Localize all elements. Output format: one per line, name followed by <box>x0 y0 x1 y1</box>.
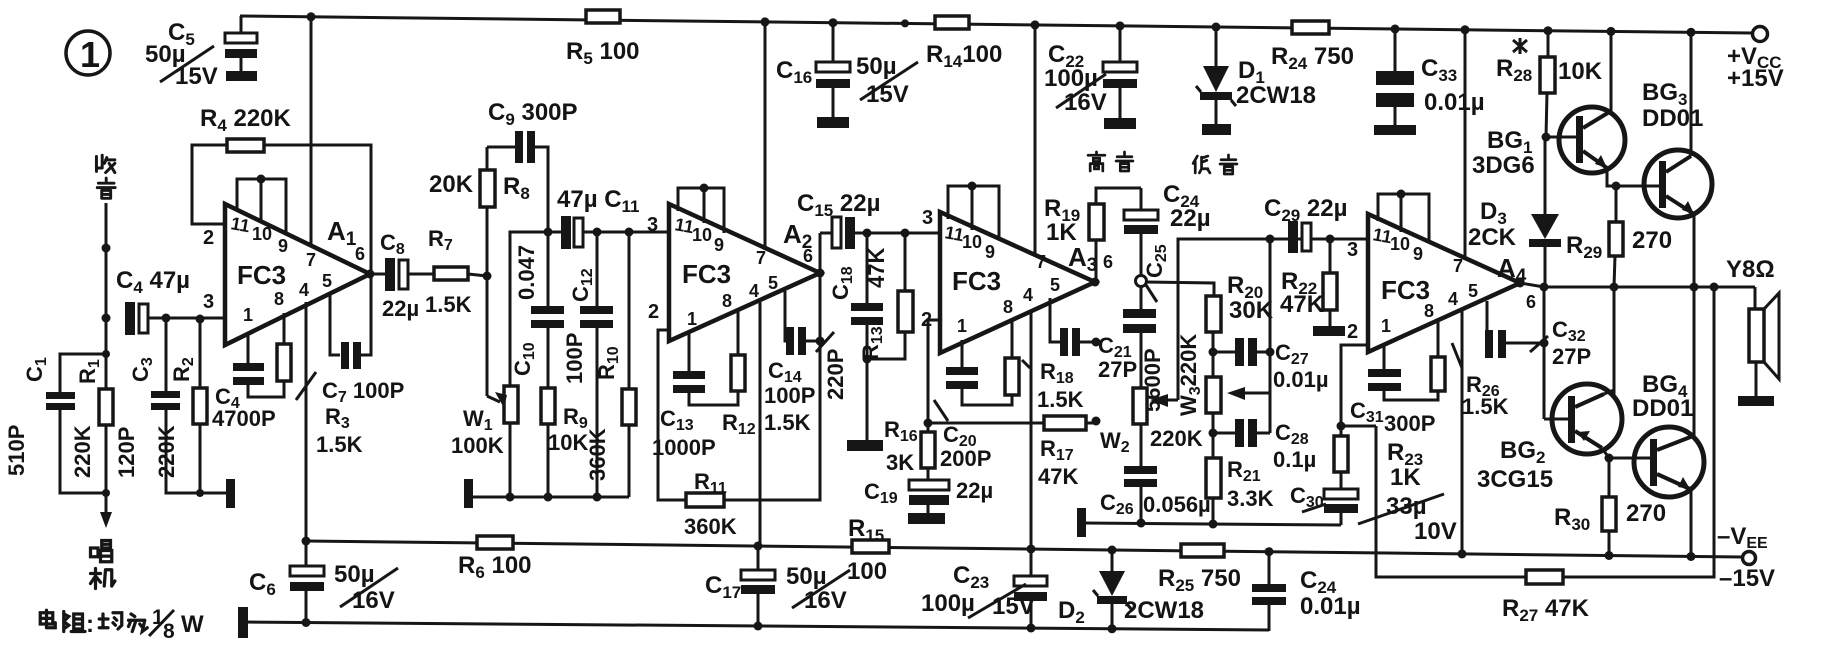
+Vcc terminal <box>1727 27 1784 93</box>
wire pin7 of A3 from +Vcc rail <box>1031 20 1040 256</box>
svg-text:270: 270 <box>1626 500 1666 527</box>
node output junction dots <box>1610 283 1719 292</box>
svg-text:220K: 220K <box>1150 426 1203 451</box>
ground bus of stage 2 <box>464 479 629 508</box>
svg-text:220K: 220K <box>70 425 95 478</box>
label: "phonograph" (CJK chang-ji) <box>91 541 115 589</box>
capacitor C29 22u coupling to A4 <box>1264 195 1347 253</box>
svg-text:7: 7 <box>306 250 316 270</box>
svg-text:50µ: 50µ <box>786 563 827 590</box>
resistor R20 30K bass <box>1206 272 1274 377</box>
svg-text:C4 47µ: C4 47µ <box>116 267 190 297</box>
svg-text:47K: 47K <box>1038 464 1078 489</box>
svg-text:360K: 360K <box>684 514 737 539</box>
svg-text:3DG6: 3DG6 <box>1472 152 1535 179</box>
svg-text:510P: 510P <box>4 425 29 476</box>
op-amp A4 FC3 triangle <box>1347 214 1536 352</box>
pin bracket above A2 <box>678 184 724 234</box>
transistor BG3 DD01 <box>1642 28 1712 287</box>
svg-text:3K: 3K <box>886 450 914 475</box>
note text: resistors all 1/8W <box>86 606 204 643</box>
resistor R2 220K <box>154 319 207 497</box>
speaker Y 8ohm <box>1726 256 1779 406</box>
svg-text:16V: 16V <box>352 587 395 614</box>
ground terminal bar (bottom left) <box>238 607 248 638</box>
svg-text:1: 1 <box>80 34 100 75</box>
svg-text:100P: 100P <box>764 383 815 408</box>
svg-text:8: 8 <box>1424 301 1434 321</box>
node A1 output <box>366 270 375 279</box>
svg-text:100K: 100K <box>451 433 504 458</box>
svg-text:5: 5 <box>1050 275 1060 295</box>
svg-text:R6 100: R6 100 <box>458 552 532 582</box>
svg-text:10: 10 <box>962 232 982 252</box>
capacitor C1 510P (parallel with R1) <box>4 354 106 493</box>
-Vee terminal <box>1717 523 1775 592</box>
diode D3 2CK <box>1468 137 1561 292</box>
svg-text:22µ: 22µ <box>382 296 419 321</box>
resistor R24 <box>1271 21 1354 73</box>
resistor R29 270 <box>1566 182 1672 288</box>
svg-text:100µ: 100µ <box>1044 65 1098 92</box>
svg-text:FC3: FC3 <box>682 259 731 289</box>
capacitor C20 200P on pin1 <box>934 340 1012 471</box>
svg-text:3: 3 <box>647 214 658 236</box>
svg-text:4: 4 <box>299 280 309 300</box>
svg-text:5: 5 <box>322 271 332 291</box>
zener diode D2 2CW18 <box>1058 546 1204 634</box>
svg-text:W3220K: W3220K <box>1176 334 1204 416</box>
svg-text:50µ: 50µ <box>856 53 897 80</box>
svg-text:1K: 1K <box>1390 464 1421 491</box>
transistor BG2 3CG15 <box>1477 287 1656 493</box>
svg-text:C29 22µ: C29 22µ <box>1264 195 1347 225</box>
resistor R16 3K + capacitor C19 22u to ground <box>864 417 993 524</box>
svg-text:10: 10 <box>1390 234 1410 254</box>
svg-text:9: 9 <box>278 236 288 256</box>
svg-text:220K: 220K <box>154 425 179 478</box>
svg-text:200P: 200P <box>940 446 991 471</box>
svg-text:22µ: 22µ <box>1170 205 1211 232</box>
resistor R14 <box>926 16 1002 71</box>
svg-text:10V: 10V <box>1414 518 1457 545</box>
resistor R23 1K + capacitor C30 33u/10V on pin2 <box>1290 345 1457 545</box>
svg-text:8: 8 <box>1003 297 1013 317</box>
svg-text:11: 11 <box>229 213 251 236</box>
svg-text:120P: 120P <box>114 427 139 478</box>
svg-text:47K: 47K <box>864 248 889 288</box>
node: input junction to C4 <box>102 314 111 323</box>
capacitor C10 0.047 + resistor R9 10K chain <box>510 232 588 502</box>
svg-text:0.056µ: 0.056µ <box>1143 492 1211 517</box>
transistor BG1 3DG6 <box>1472 27 1661 186</box>
capacitor C7 100P pin5 to output <box>322 274 404 406</box>
resistor R7 1.5K <box>425 226 487 317</box>
svg-text:4: 4 <box>1448 289 1458 309</box>
svg-text:3.3K: 3.3K <box>1227 486 1274 511</box>
svg-text:7: 7 <box>1453 256 1463 276</box>
svg-text:0.01µ: 0.01µ <box>1273 367 1329 392</box>
svg-text:4: 4 <box>749 281 759 301</box>
capacitor C4' 4700P on pin1 <box>212 333 284 431</box>
node A3 output <box>1091 278 1100 287</box>
resistor R11 360K feedback <box>658 273 820 539</box>
resistor R15 <box>847 515 889 585</box>
negative supply mid rail (-Vee bus) <box>306 541 1742 557</box>
svg-text:0.01µ: 0.01µ <box>1424 89 1485 116</box>
svg-text:0.01µ: 0.01µ <box>1300 593 1361 620</box>
wire pin7 of A4 from +Vcc rail <box>1461 25 1470 260</box>
resistor R10 360K <box>585 228 636 498</box>
node A4 output <box>1516 279 1525 288</box>
capacitor C23 (electrolytic) <box>921 545 1047 633</box>
resistor R5 <box>566 10 640 68</box>
svg-text:4700P: 4700P <box>212 406 276 431</box>
capacitor C18 220P to ground <box>823 229 883 452</box>
svg-text:1.5K: 1.5K <box>764 410 811 435</box>
svg-text:220P: 220P <box>823 349 848 400</box>
svg-text:C9 300P: C9 300P <box>488 99 578 129</box>
svg-text:20K: 20K <box>429 171 474 198</box>
resistor R27 feedback from output <box>1376 287 1714 625</box>
wire D3 node down to BG2 base <box>1544 287 1569 419</box>
svg-text:1.5K: 1.5K <box>1462 394 1509 419</box>
circled figure number 1 <box>66 31 110 75</box>
capacitor C15 22u coupling <box>797 190 940 273</box>
svg-text:1K: 1K <box>1046 219 1077 246</box>
svg-text:9: 9 <box>714 235 724 255</box>
svg-text:100P: 100P <box>562 333 587 384</box>
svg-text:6: 6 <box>1526 292 1536 312</box>
capacitor C24 0.01u <box>1252 547 1361 631</box>
capacitor C4 47u input coupling <box>116 267 225 335</box>
svg-text:R24 750: R24 750 <box>1271 43 1354 73</box>
svg-text:W: W <box>181 611 204 638</box>
op-amp A2 FC3 triangle <box>647 204 820 341</box>
resistor R18 1.5K on pin8 <box>1005 320 1084 412</box>
node top rail junction blob <box>901 19 909 27</box>
svg-text:3: 3 <box>922 207 933 229</box>
resistor R8 20K <box>429 147 530 276</box>
capacitor C28 0.1u <box>1213 419 1316 472</box>
svg-text:27P: 27P <box>1552 344 1591 369</box>
svg-text:1.5K: 1.5K <box>425 292 472 317</box>
pin bracket above A3 <box>948 182 999 241</box>
resistor R22 47K to ground <box>1280 235 1345 337</box>
svg-text:3: 3 <box>203 291 214 313</box>
wire pin4 of A3 down to -Vee bus <box>1030 312 1033 549</box>
svg-text:2CW18: 2CW18 <box>1124 597 1204 624</box>
resistor R1 220K (in input line) <box>70 350 113 497</box>
svg-text:15V: 15V <box>866 81 909 108</box>
svg-text:1: 1 <box>1381 316 1391 336</box>
label: input source "radio" (CJK shou-yin) <box>96 155 115 198</box>
svg-text:22µ: 22µ <box>956 478 993 503</box>
resistor R26 1.5K on pin8 <box>1431 320 1509 419</box>
capacitor C11 47u coupling <box>544 186 670 249</box>
capacitor C26 0.056u <box>1100 424 1211 528</box>
svg-text:7: 7 <box>756 248 766 268</box>
svg-text:1000P: 1000P <box>652 435 716 460</box>
resistor R30 270 <box>1554 454 1666 561</box>
node A2 output <box>816 269 825 278</box>
pin bracket above A4 <box>1378 190 1429 244</box>
svg-text:9: 9 <box>985 242 995 262</box>
resistor R25 <box>1158 544 1241 595</box>
svg-text:100: 100 <box>847 558 887 585</box>
capacitor C31 300P on pin1 <box>1350 345 1438 436</box>
svg-text:R14100: R14100 <box>926 41 1002 71</box>
potentiometer W3 220K bass <box>1176 334 1270 458</box>
svg-text:8: 8 <box>163 620 175 643</box>
ground bus of tone network <box>1077 508 1341 537</box>
wire output rail to speaker <box>1520 283 1755 287</box>
svg-text:R25 750: R25 750 <box>1158 565 1241 595</box>
svg-text:8: 8 <box>274 289 284 309</box>
svg-text:DD01: DD01 <box>1642 105 1703 132</box>
svg-text:FC3: FC3 <box>237 260 286 290</box>
svg-text:+15V: +15V <box>1727 65 1784 92</box>
svg-text:R5 100: R5 100 <box>566 38 640 68</box>
resistor R4 220K feedback <box>192 105 371 274</box>
top +Vcc supply rail <box>240 16 1751 33</box>
svg-text::: : <box>86 611 94 638</box>
feedback junction to R27 <box>1341 425 1376 428</box>
capacitor C17 (electrolytic) <box>705 542 850 631</box>
svg-text:10: 10 <box>252 224 272 244</box>
resistor R13 47K <box>858 229 913 361</box>
label treble (CJK gao-yin) <box>1088 152 1133 171</box>
svg-text:1.5K: 1.5K <box>1037 387 1084 412</box>
svg-text:3: 3 <box>1347 239 1358 261</box>
svg-text:30K: 30K <box>1229 297 1274 324</box>
capacitor C8 22u coupling <box>370 230 434 321</box>
node BG1 base <box>1542 133 1551 142</box>
svg-text:2CW18: 2CW18 <box>1236 82 1316 109</box>
svg-text:2: 2 <box>648 301 659 323</box>
op-amp A3 FC3 triangle <box>921 207 1113 353</box>
wire treble wiper to A4 pin3 <box>1178 239 1367 400</box>
svg-text:360K: 360K <box>585 428 610 481</box>
bottom ground rail <box>243 622 1269 630</box>
node wiper tap (open circle) of W2 <box>1136 244 1215 302</box>
capacitor C12 100P chain <box>562 228 613 502</box>
svg-text:16V: 16V <box>804 587 847 614</box>
svg-text:27P: 27P <box>1098 357 1137 382</box>
ground bar for input network <box>226 479 235 508</box>
resistor R21 3.3K bass <box>1206 429 1274 529</box>
svg-text:10: 10 <box>692 225 712 245</box>
svg-text:Y8Ω: Y8Ω <box>1726 256 1775 283</box>
op-amp A1 FC3 triangle <box>203 204 370 345</box>
svg-text:1: 1 <box>243 305 253 325</box>
svg-text:C15 22µ: C15 22µ <box>797 190 880 220</box>
svg-text:47K: 47K <box>1280 291 1325 318</box>
svg-text:R27 47K: R27 47K <box>1502 595 1590 625</box>
svg-text:2CK: 2CK <box>1468 224 1517 251</box>
resistor R6 <box>458 536 532 582</box>
resistor R28 10K bias <box>1496 26 1603 137</box>
svg-text:100µ: 100µ <box>921 590 975 617</box>
capacitor C24' 22u (treble series) <box>1124 181 1211 276</box>
note text CJK: "resistors: all are 1/8W" <box>40 610 147 631</box>
capacitor C21 27P pin5 to output <box>1050 298 1137 382</box>
svg-text:2: 2 <box>203 227 214 249</box>
svg-text:9: 9 <box>1413 244 1423 264</box>
wire pin7 of A1 from +Vcc rail <box>307 12 316 247</box>
capacitor C32 27P pin5 to output <box>1485 301 1591 369</box>
svg-text:FC3: FC3 <box>1381 275 1430 305</box>
svg-text:4: 4 <box>1023 285 1033 305</box>
potentiometer W1 100K volume <box>451 232 548 502</box>
resistor R19 1K from output up <box>1044 188 1141 282</box>
potentiometer W2 220K treble <box>1100 388 1203 456</box>
capacitor C9 300P <box>487 99 578 232</box>
capacitor C14 100P pin5 to output <box>764 291 834 435</box>
capacitor C5 (electrolytic to ground) <box>145 16 257 90</box>
svg-text:3CG15: 3CG15 <box>1477 466 1553 493</box>
input wire from radio <box>102 203 111 318</box>
capacitor C27 0.01u <box>1213 338 1329 392</box>
svg-text:8: 8 <box>722 291 732 311</box>
svg-text:1.5K: 1.5K <box>316 432 363 457</box>
svg-text:270: 270 <box>1632 227 1672 254</box>
capacitor C22 (electrolytic to ground) <box>1044 21 1137 129</box>
capacitor C13 1000P on pin1 <box>652 332 738 460</box>
arrow to phono output <box>100 494 112 528</box>
capacitor C3 120P <box>114 318 230 493</box>
svg-text:2: 2 <box>1347 321 1358 343</box>
svg-text:6: 6 <box>355 244 365 264</box>
svg-text:R4 220K: R4 220K <box>200 105 292 135</box>
svg-text:–15V: –15V <box>1719 565 1775 592</box>
svg-text:10K: 10K <box>548 430 588 455</box>
wire bass side branch <box>1266 235 1275 434</box>
resistor R3 1.5K on pin8 <box>277 313 363 457</box>
wire pin4 of A2 down to -Vee bus <box>759 300 762 546</box>
node X after R7 <box>483 272 492 281</box>
svg-text:300P: 300P <box>1384 411 1435 436</box>
capacitor C16 (electrolytic to ground) <box>776 18 918 128</box>
wire pin7 of A2 from +Vcc rail <box>761 17 770 250</box>
wire input line down to phono <box>105 318 108 494</box>
svg-text:0.047: 0.047 <box>514 245 539 300</box>
capacitor C33 <box>1374 25 1485 136</box>
svg-text:1: 1 <box>687 309 697 329</box>
pin bracket (pins 11-10-9 tied) above A1 <box>237 175 286 235</box>
svg-text:DD01: DD01 <box>1632 395 1693 422</box>
resistor R12 (1.5K) on pin8 <box>722 310 756 438</box>
svg-text:10K: 10K <box>1558 58 1603 85</box>
wire pin4 of A1 down to -Vee bus <box>305 302 308 541</box>
svg-text:7: 7 <box>1036 252 1046 272</box>
label bass (CJK di-yin) <box>1193 155 1237 174</box>
wire pin4 of A4 down to -Vee bus <box>1458 310 1467 558</box>
svg-text:6: 6 <box>1103 252 1113 272</box>
resistor R17 47K feedback <box>924 320 1101 489</box>
svg-text:15V: 15V <box>992 593 1035 620</box>
capacitor C25 5600P <box>1123 287 1165 412</box>
zener diode D1 2CW18 <box>1196 23 1316 136</box>
svg-text:C7 100P: C7 100P <box>322 378 404 406</box>
svg-text:5: 5 <box>1468 281 1478 301</box>
svg-text:5: 5 <box>768 273 778 293</box>
transistor BG4 DD01 <box>1632 287 1704 561</box>
capacitor C6 (electrolytic) <box>249 537 398 628</box>
svg-text:1: 1 <box>957 316 967 336</box>
svg-text:FC3: FC3 <box>952 266 1001 296</box>
svg-text:50µ: 50µ <box>334 561 375 588</box>
svg-text:0.1µ: 0.1µ <box>1273 447 1316 472</box>
svg-text:16V: 16V <box>1064 89 1107 116</box>
